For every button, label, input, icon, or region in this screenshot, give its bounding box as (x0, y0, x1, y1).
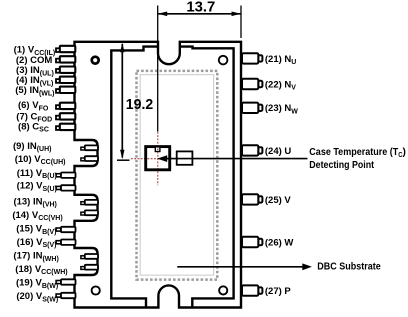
dimension 19.2 top arrowhead (120, 43, 124, 53)
mounting hole bottom-left (92, 286, 100, 294)
case outline (75, 42, 242, 308)
pin 9 stub (81, 145, 98, 150)
pin 11 tab (56, 173, 75, 178)
pin 16 tab (56, 240, 75, 245)
svg-text:(15) VB(V): (15) VB(V) (16, 224, 56, 236)
svg-text:(17) IN(WH): (17) IN(WH) (13, 251, 58, 263)
pin 12 tab (56, 185, 75, 190)
svg-text:Case Temperature (T: Case Temperature (T (309, 146, 398, 158)
pin 21 tab (242, 53, 262, 63)
svg-text:(23) NW: (23) NW (265, 103, 298, 115)
svg-text:Detecting Point: Detecting Point (309, 159, 374, 171)
dimension 13.7 right arrowhead (232, 12, 242, 17)
mounting hole top-right (219, 56, 228, 65)
small component square (177, 151, 193, 164)
pin 24 tab (242, 145, 262, 155)
svg-text:(10) VCC(UH): (10) VCC(UH) (15, 154, 66, 166)
mounting hole top-left (ring) (92, 57, 99, 64)
svg-text:(19) VB(W): (19) VB(W) (16, 278, 58, 290)
pin 3 tab (56, 67, 75, 73)
pin 10 stub (81, 156, 98, 161)
pin 14 stub (81, 210, 98, 215)
svg-text:(16) VS(V): (16) VS(V) (17, 237, 57, 249)
pin 4 tab (56, 77, 75, 83)
svg-text:(25) V: (25) V (265, 195, 292, 206)
case temperature leader line (163, 158, 308, 160)
pin 8 tab (56, 124, 75, 130)
dimension 13.7 line (158, 13, 241, 15)
svg-text:(18) VCC(WH): (18) VCC(WH) (15, 264, 67, 276)
svg-text:(24) U: (24) U (265, 146, 292, 157)
dimension 19.2 bottom arrowhead (120, 150, 124, 160)
pin 20 tab (56, 293, 75, 298)
pin 23 tab (242, 103, 262, 113)
svg-text:(22) NV: (22) NV (265, 79, 296, 91)
pin 18 stub (81, 265, 98, 270)
pin 13 stub (81, 200, 98, 205)
dimension 19.2 line (121, 44, 123, 158)
thermistor bold square (146, 147, 170, 170)
svg-text:(26) W: (26) W (265, 237, 294, 248)
mounting hole bottom-right (219, 286, 227, 294)
svg-text:19.2: 19.2 (126, 96, 153, 113)
pin 22 tab (242, 79, 262, 89)
svg-text:13.7: 13.7 (186, 0, 215, 16)
pin 6 tab (56, 103, 75, 109)
pin 19 tab (56, 279, 75, 284)
dimension 13.7 extension line right (240, 6, 242, 39)
svg-text:(12) VS(U): (12) VS(U) (17, 181, 57, 193)
pin 25 tab (242, 194, 262, 204)
dimension 19.2 bottom tick (117, 159, 130, 161)
pin 5 tab (56, 87, 75, 93)
pin 2 tab (56, 56, 75, 62)
DBC substrate leader arrowhead (302, 263, 312, 270)
svg-text:DBC Substrate: DBC Substrate (317, 260, 381, 272)
tiny sensor square (155, 147, 160, 152)
pin 27 tab (242, 285, 262, 295)
dimension 13.7 left arrowhead (158, 12, 168, 17)
DBC substrate leader line (177, 266, 303, 268)
pin 15 tab (56, 227, 75, 232)
DBC substrate dashed outline (137, 71, 218, 280)
svg-text:(21) NU: (21) NU (265, 54, 296, 66)
Tc point crosshair horizontal (red dashed) (131, 158, 186, 160)
svg-text:(27) P: (27) P (265, 286, 292, 297)
pin 1 tab (56, 46, 75, 52)
case temperature leader arrowhead (157, 155, 167, 162)
svg-text:): ) (403, 146, 406, 158)
pin 17 stub (81, 254, 98, 259)
svg-text:(20) VS(W): (20) VS(W) (16, 291, 58, 303)
red dot inside tiny sensor square (157, 149, 158, 150)
svg-text:(9) IN(UH): (9) IN(UH) (13, 141, 52, 153)
pin 7 tab (56, 113, 75, 119)
lid outline right part (180, 47, 234, 307)
lid outline left part (111, 47, 158, 307)
svg-text:(13) IN(VH): (13) IN(VH) (13, 196, 56, 208)
dimension 13.7 extension line left / center line (157, 6, 159, 132)
svg-text:(11) VB(U): (11) VB(U) (17, 168, 57, 180)
svg-text:(14) VCC(VH): (14) VCC(VH) (12, 210, 62, 222)
Tc point crosshair vertical (red dashed) (157, 132, 159, 186)
pin 26 tab (242, 237, 262, 247)
